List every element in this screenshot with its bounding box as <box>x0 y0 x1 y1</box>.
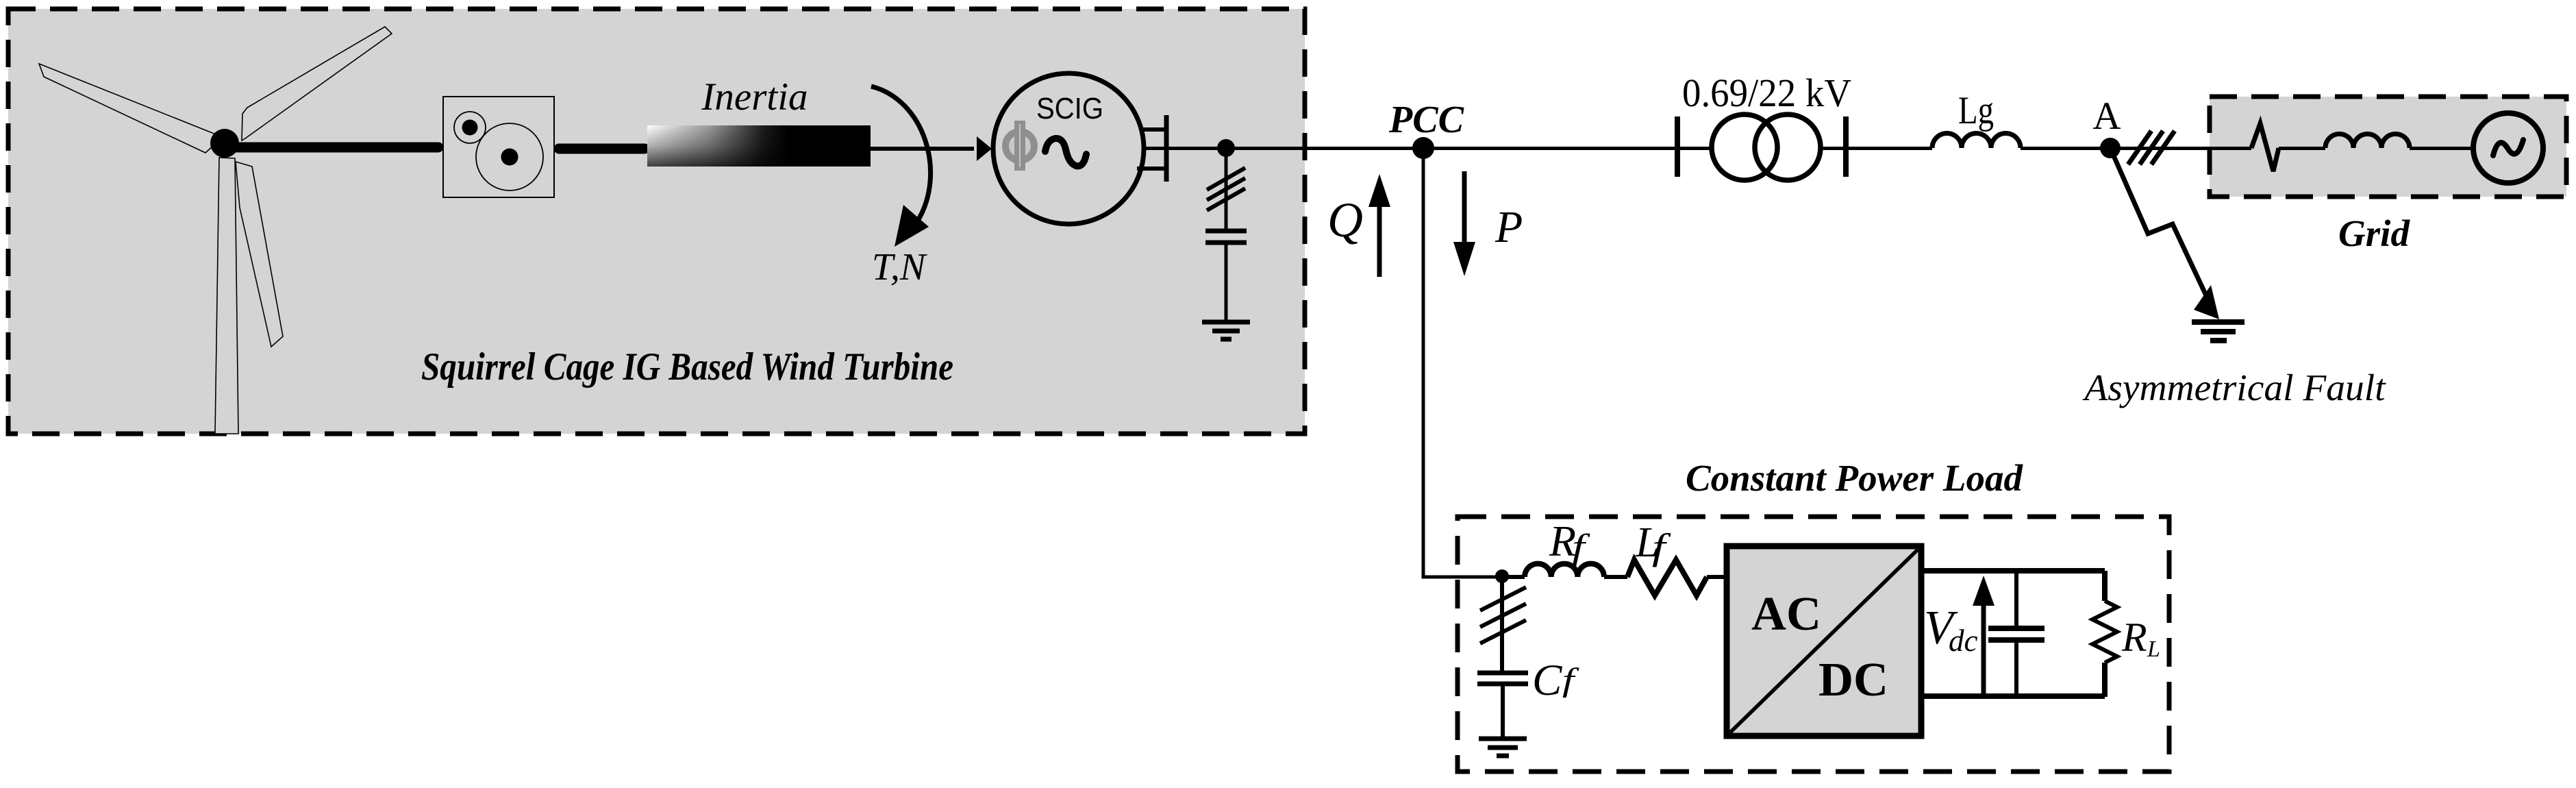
svg-text:Q: Q <box>1327 193 1363 247</box>
svg-text:f: f <box>1562 662 1579 698</box>
svg-text:Squirrel Cage IG Based Wind Tu: Squirrel Cage IG Based Wind Turbine <box>421 345 953 389</box>
svg-text:f: f <box>1652 526 1671 567</box>
svg-text:T,N: T,N <box>872 246 927 288</box>
svg-text:SCIG: SCIG <box>1036 92 1103 125</box>
svg-text:Inertia: Inertia <box>701 75 808 119</box>
svg-text:Asymmetrical Fault: Asymmetrical Fault <box>2081 367 2386 409</box>
svg-text:DC: DC <box>1818 654 1888 706</box>
svg-text:R: R <box>2121 615 2147 660</box>
svg-text:0.69/22 kV: 0.69/22 kV <box>1682 71 1851 115</box>
svg-text:f: f <box>1572 527 1590 567</box>
svg-text:AC: AC <box>1751 588 1821 641</box>
svg-text:P: P <box>1495 202 1523 252</box>
svg-text:Lg: Lg <box>1958 89 1994 132</box>
svg-text:L: L <box>2147 637 2160 662</box>
svg-text:C: C <box>1532 656 1562 705</box>
svg-text:A: A <box>2092 95 2121 138</box>
svg-text:dc: dc <box>1949 624 1978 658</box>
svg-text:PCC: PCC <box>1388 99 1464 141</box>
svg-text:Grid: Grid <box>2338 212 2410 254</box>
svg-text:Constant Power Load: Constant Power Load <box>1686 457 2024 499</box>
